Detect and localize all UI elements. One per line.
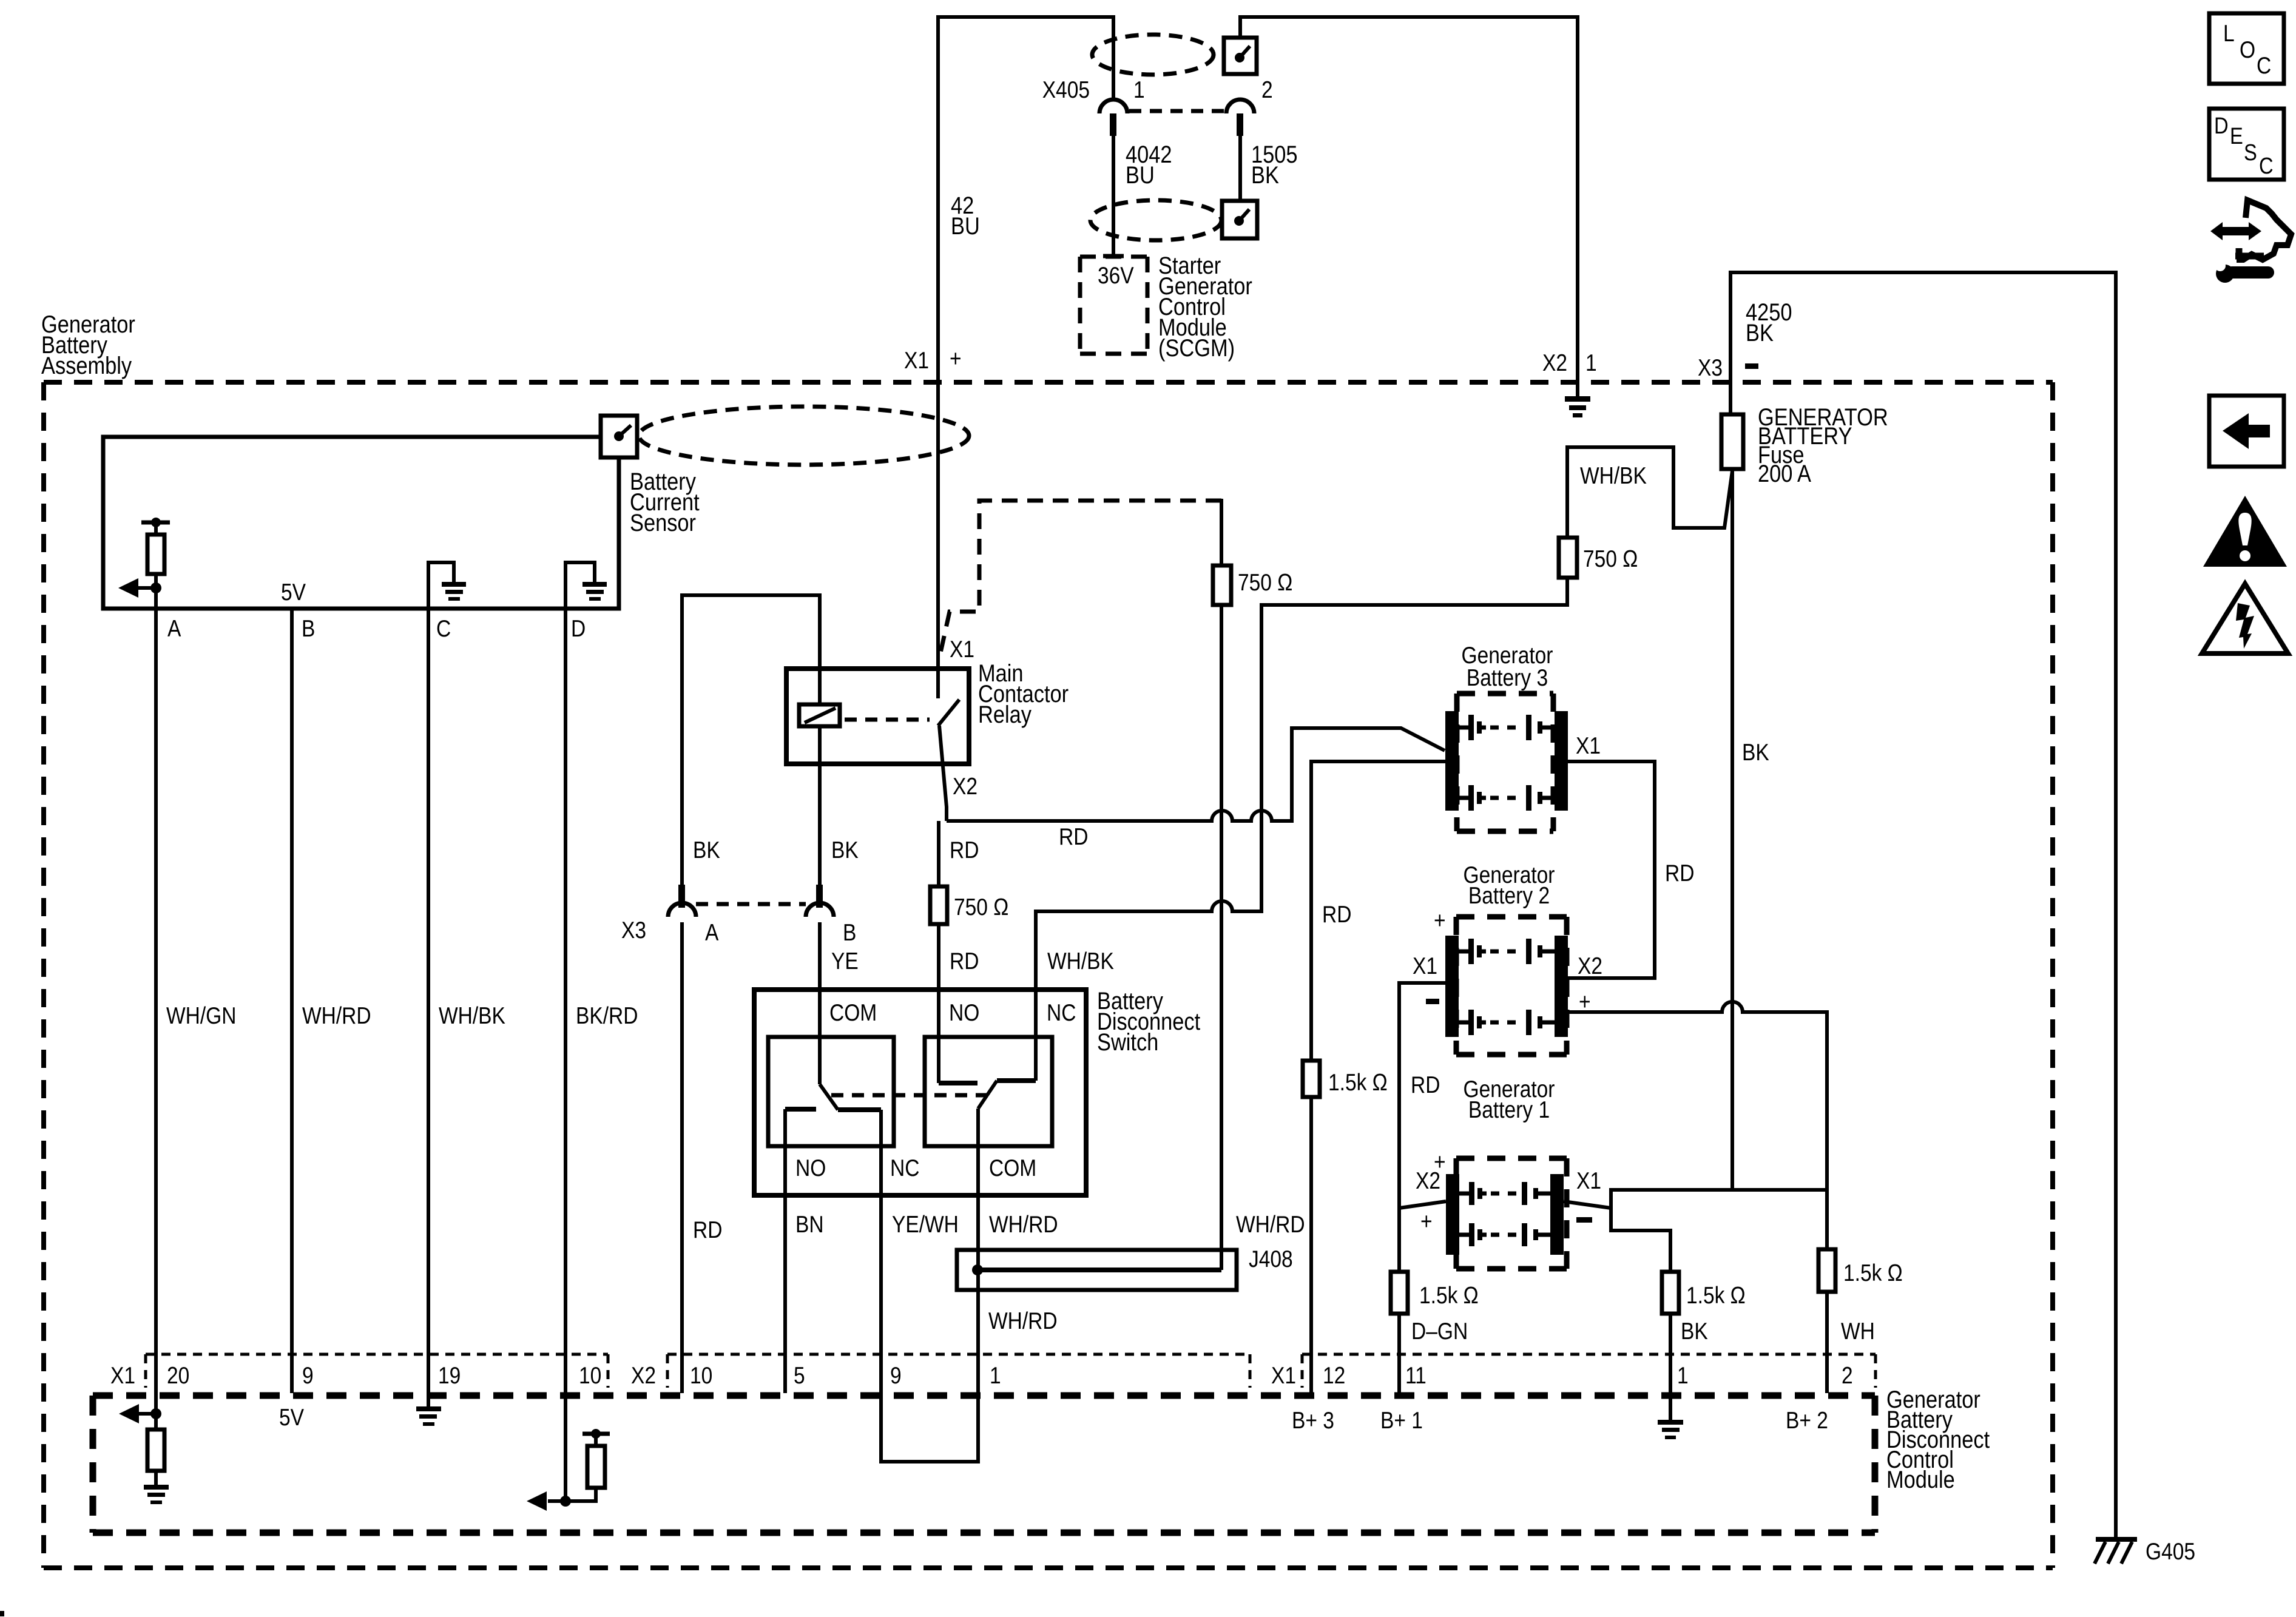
svg-text:1.5k Ω: 1.5k Ω	[1843, 1260, 1903, 1286]
switch left blade COM to NC	[820, 1084, 838, 1110]
wire to pin 12	[1309, 1097, 1313, 1393]
twisted-leads ellipse upper	[1092, 35, 1214, 75]
svg-text:B: B	[843, 919, 856, 946]
svg-text:20: 20	[167, 1362, 189, 1389]
svg-text:BK: BK	[831, 837, 859, 863]
wire battery 2 plus to right side	[1568, 1002, 1827, 1249]
battery Generator Battery 2	[1456, 914, 1567, 920]
icon back arrow box	[2209, 396, 2284, 467]
svg-text:1.5k Ω: 1.5k Ω	[1419, 1282, 1479, 1309]
svg-text:COM: COM	[829, 999, 877, 1026]
J408 bus bar	[976, 1268, 1221, 1272]
resistor 750 ohm (fuse branch)	[1559, 538, 1577, 578]
svg-text:5V: 5V	[279, 1404, 305, 1431]
svg-text:2: 2	[1261, 76, 1273, 103]
svg-text:Assembly: Assembly	[41, 352, 132, 379]
svg-text:BK: BK	[693, 837, 720, 863]
icon tool wrench	[2232, 266, 2268, 279]
wire 4042 BU	[1112, 136, 1115, 254]
svg-text:J408: J408	[1249, 1246, 1293, 1272]
sensor arrow left	[137, 586, 156, 590]
switch right NC contact bar	[997, 1078, 1036, 1083]
svg-text:S: S	[2244, 140, 2257, 166]
svg-text:BK: BK	[1742, 739, 1769, 766]
svg-text:B+ 1: B+ 1	[1380, 1407, 1423, 1434]
switch right NO contact bar	[939, 1081, 977, 1085]
svg-text:WH/BK: WH/BK	[1580, 462, 1647, 489]
svg-text:750 Ω: 750 Ω	[954, 894, 1008, 920]
connector X3 dashed link	[696, 902, 806, 906]
svg-text:WH/GN: WH/GN	[166, 1002, 236, 1029]
wire SCGM top right to X2 ground	[1240, 17, 1578, 396]
svg-text:WH/BK: WH/BK	[439, 1002, 505, 1029]
svg-text:B: B	[302, 615, 315, 642]
wire diagonal battery1 X2	[1399, 1201, 1446, 1208]
svg-text:RD: RD	[1059, 823, 1088, 850]
svg-text:X1: X1	[1413, 953, 1437, 979]
ground below X2 pin 1	[1565, 396, 1590, 402]
svg-text:RD: RD	[950, 837, 979, 863]
svg-text:12: 12	[1323, 1362, 1345, 1389]
svg-text:C: C	[436, 615, 451, 642]
switch Battery Disconnect Switch box	[754, 990, 1086, 1195]
wire RD down to switch NO	[937, 821, 940, 886]
svg-text:NC: NC	[1047, 999, 1076, 1026]
wire B2 X1 chain to pin 11	[1397, 1208, 1401, 1272]
wire right NC from WH/BK	[1034, 990, 1038, 1081]
svg-text:X1: X1	[1576, 1167, 1601, 1194]
battery current sensor square	[601, 416, 637, 457]
connector X3 pin B terminal	[816, 885, 823, 908]
svg-text:9: 9	[302, 1362, 314, 1389]
svg-text:+: +	[1434, 907, 1446, 934]
svg-text:X405: X405	[1042, 76, 1090, 103]
switch inner cell left	[768, 1037, 894, 1146]
resistor (A internal)	[154, 1414, 158, 1430]
wire U-link pins 9 to 1	[881, 1393, 978, 1462]
wire WH/RD from right COM through J408	[976, 1109, 980, 1393]
wire B WH/RD	[290, 609, 294, 1393]
svg-text:WH/BK: WH/BK	[1047, 948, 1114, 974]
module internals: A junction dot	[150, 1408, 161, 1419]
resistor 1.5k (B+1)	[1391, 1272, 1408, 1314]
wire RD relay X2 to battery 3	[947, 728, 1445, 821]
Generator Battery Assembly dashed box	[44, 380, 2053, 385]
svg-text:X1: X1	[110, 1362, 135, 1389]
svg-text:BK: BK	[1681, 1318, 1708, 1345]
svg-text:RD: RD	[950, 948, 979, 974]
svg-text:5: 5	[794, 1362, 805, 1389]
svg-text:A: A	[705, 919, 719, 946]
svg-text:19: 19	[438, 1362, 461, 1389]
svg-text:RD: RD	[1322, 901, 1351, 928]
wire 42 BU from SCGM X1 to relay	[938, 17, 1113, 698]
ground (C pin 19)	[427, 1393, 430, 1406]
svg-text:Module: Module	[1886, 1466, 1955, 1493]
ground G405	[2096, 1537, 2137, 1542]
wire 1505 BK	[1238, 136, 1242, 201]
svg-text:1: 1	[1133, 76, 1145, 103]
switch mechanical dashed link	[831, 1093, 989, 1098]
svg-text:NO: NO	[949, 999, 979, 1026]
connector X3 pin A arc	[668, 903, 696, 917]
resistor 750 ohm (switch NO)	[930, 886, 947, 924]
resistor 1.5k (BK)	[1662, 1272, 1679, 1314]
wire BK from fuse down	[1730, 469, 1734, 1190]
svg-text:1.5k Ω: 1.5k Ω	[1328, 1069, 1388, 1096]
svg-text:1: 1	[1677, 1362, 1689, 1389]
svg-text:1: 1	[990, 1362, 1001, 1389]
wire coil to X3 B	[818, 726, 822, 885]
wire battery 2 X1 to battery 1 X2 (RD)	[1399, 983, 1445, 1208]
wire YE (B) to switch COM	[818, 922, 822, 1084]
svg-text:1.5k Ω: 1.5k Ω	[1686, 1282, 1746, 1309]
svg-text:10: 10	[690, 1362, 712, 1389]
svg-text:+: +	[950, 345, 962, 372]
svg-text:(SCGM): (SCGM)	[1158, 334, 1235, 362]
svg-text:36V: 36V	[1098, 262, 1134, 289]
splice clip square upper	[1224, 38, 1257, 74]
svg-text:NO: NO	[795, 1155, 826, 1181]
wire WH/BK continues	[1036, 578, 1567, 990]
arrow left (D)	[548, 1499, 566, 1503]
fuse GENERATOR BATTERY 200A	[1721, 414, 1743, 469]
svg-text:X3: X3	[1698, 354, 1723, 381]
wire SCGM to 750 ohm	[1220, 499, 1223, 565]
relay switch blade	[938, 700, 959, 726]
svg-text:Battery 3: Battery 3	[1467, 664, 1548, 691]
svg-text:D–GN: D–GN	[1411, 1318, 1468, 1345]
relay coil	[799, 704, 840, 726]
connector X405 pin 2 terminal	[1237, 113, 1243, 136]
module internals: D junction dot	[560, 1496, 571, 1507]
wire relay X2 down	[939, 726, 947, 821]
svg-text:RD: RD	[1665, 860, 1694, 886]
wire to pin 1 and ground	[1669, 1314, 1672, 1420]
terminal T-bar 36V	[1103, 254, 1124, 258]
svg-text:D: D	[571, 615, 586, 642]
svg-text:D: D	[2214, 113, 2229, 139]
svg-text:YE: YE	[831, 948, 859, 974]
label minus (battery 2 left)	[1426, 999, 1439, 1004]
connector X3 pin A terminal	[678, 885, 685, 908]
wire BN from left NO	[783, 1109, 787, 1393]
wire D BK/RD	[564, 609, 567, 1501]
resistor 750 ohm (relay NO branch)	[1213, 565, 1231, 605]
svg-text:X3: X3	[621, 917, 646, 944]
svg-text:WH/RD: WH/RD	[302, 1002, 371, 1029]
svg-text:WH: WH	[1841, 1318, 1875, 1345]
svg-text:750 Ω: 750 Ω	[1583, 545, 1638, 572]
ground below pin 1	[1658, 1420, 1683, 1425]
wire RD into switch	[937, 924, 940, 1083]
svg-text:BK: BK	[1251, 161, 1279, 189]
page mark dot	[0, 1611, 4, 1616]
svg-text:1: 1	[1585, 349, 1597, 376]
svg-text:X2: X2	[1578, 953, 1602, 979]
wire battery 3 X1 to battery 2 X2 (RD)	[1568, 761, 1655, 978]
switch left NO contact bar	[785, 1107, 816, 1112]
svg-text:BU: BU	[951, 212, 980, 240]
wire relay coil loop	[682, 595, 820, 885]
icon tool outline	[2237, 200, 2291, 260]
connector row dotted line X1 right	[1302, 1354, 1876, 1388]
sensor clamp ellipse	[639, 407, 969, 465]
wire A WH/GN	[154, 588, 158, 1414]
splice clip square lower	[1222, 201, 1257, 238]
svg-text:11: 11	[1405, 1362, 1427, 1389]
svg-text:200 A: 200 A	[1758, 460, 1811, 487]
svg-text:BK/RD: BK/RD	[576, 1002, 638, 1029]
wire to pin 11	[1397, 1314, 1401, 1393]
wire C WH/BK	[427, 609, 430, 1393]
resistor 1.5k (B+3)	[1303, 1061, 1320, 1097]
svg-text:E: E	[2230, 123, 2243, 149]
svg-text:RD: RD	[1411, 1072, 1440, 1098]
icon lightning triangle	[2202, 584, 2288, 653]
svg-text:L: L	[2223, 20, 2235, 47]
svg-text:WH/RD: WH/RD	[988, 1308, 1058, 1334]
svg-text:5V: 5V	[281, 579, 306, 606]
connector row dotted line X2	[667, 1354, 1250, 1388]
svg-text:2: 2	[1842, 1362, 1853, 1389]
svg-text:C: C	[2259, 153, 2274, 179]
SCGM 36V dashed box	[1080, 255, 1147, 259]
ground C internal	[428, 562, 454, 609]
switch left NC contact bar	[838, 1107, 881, 1112]
svg-text:750 Ω: 750 Ω	[1238, 569, 1292, 596]
wire RD (A) to X2 pin 10	[680, 922, 684, 1393]
Generator Battery Disconnect Control Module dashed box	[93, 1393, 1875, 1399]
wire generator battery positive loop (top right box)	[1730, 272, 2116, 1537]
icon LOC box	[2209, 13, 2284, 84]
svg-text:C: C	[2257, 52, 2271, 79]
svg-text:YE/WH: YE/WH	[892, 1211, 959, 1238]
svg-text:Relay: Relay	[978, 701, 1032, 728]
switch inner cell right	[925, 1037, 1052, 1146]
SCGM dashed control path to relay X1	[939, 501, 1221, 658]
svg-text:O: O	[2240, 36, 2255, 63]
battery current sensor loop	[103, 437, 619, 609]
svg-text:WH/RD: WH/RD	[989, 1211, 1058, 1238]
switch right blade NC to COM	[978, 1081, 997, 1109]
wire battery 1 X1 diagonal	[1564, 1201, 1611, 1208]
svg-text:X2: X2	[1416, 1167, 1440, 1194]
wire WH/BK from fuse to NC	[1567, 447, 1732, 538]
battery Generator Battery 1	[1456, 1156, 1567, 1161]
svg-text:X1: X1	[1271, 1362, 1296, 1389]
ground (A internal)	[144, 1485, 169, 1490]
svg-text:10: 10	[579, 1362, 601, 1389]
connector row dotted line X1 left	[146, 1354, 608, 1388]
sensor internal resistor	[154, 522, 158, 535]
connector X405 pin 1 terminal	[1110, 113, 1116, 136]
ground D internal	[566, 562, 595, 609]
svg-text:COM: COM	[989, 1155, 1036, 1181]
wire from 750 ohm to J408	[1220, 605, 1223, 1270]
wire BK branch to pin 1 ground	[1611, 1190, 1827, 1272]
svg-text:BN: BN	[795, 1211, 824, 1238]
wire YE/WH from left NC	[879, 1110, 883, 1393]
svg-text:NC: NC	[890, 1155, 919, 1181]
label minus (battery 1 right)	[1576, 1217, 1592, 1223]
svg-text:X1: X1	[950, 636, 974, 663]
svg-text:9: 9	[890, 1362, 902, 1389]
connector X405 pin 2 arc	[1226, 100, 1254, 113]
icon warning triangle	[2203, 496, 2287, 567]
connector X405 dashed link	[1129, 109, 1226, 113]
svg-text:Battery 1: Battery 1	[1468, 1096, 1550, 1123]
connector X3 pin B arc	[806, 903, 834, 917]
relay Main Contactor Relay box	[786, 669, 969, 764]
svg-text:RD: RD	[693, 1217, 722, 1243]
relay coil dashed link	[845, 718, 930, 722]
svg-text:B+ 3: B+ 3	[1292, 1407, 1334, 1434]
wire WH to pin 2	[1825, 1292, 1829, 1393]
wire battery 3 left to pin 12 B+3	[1311, 761, 1445, 1061]
sensor internal resistor T-bar	[141, 521, 170, 525]
svg-text:A: A	[167, 615, 181, 642]
svg-text:+: +	[1420, 1208, 1433, 1235]
svg-text:Switch: Switch	[1097, 1028, 1158, 1056]
svg-text:X1: X1	[1576, 732, 1601, 759]
arrow left (A)	[138, 1412, 156, 1416]
svg-text:BU: BU	[1126, 161, 1155, 189]
splice pack J408	[957, 1250, 1237, 1290]
icon tool double arrow	[2210, 222, 2261, 240]
twisted-leads ellipse lower	[1090, 200, 1221, 240]
svg-text:BK: BK	[1746, 319, 1774, 346]
svg-text:X2: X2	[631, 1362, 656, 1389]
svg-text:Battery 2: Battery 2	[1468, 882, 1550, 909]
svg-text:B+ 2: B+ 2	[1786, 1407, 1828, 1434]
svg-text:G405: G405	[2146, 1538, 2195, 1565]
svg-text:Sensor: Sensor	[630, 509, 696, 536]
battery Generator Battery 3	[1457, 691, 1553, 697]
svg-text:X1: X1	[904, 347, 929, 374]
icon DESC box	[2209, 109, 2284, 180]
sensor junction dot	[150, 582, 161, 593]
svg-text:WH/RD: WH/RD	[1236, 1211, 1305, 1238]
connector X405 pin 1 arc	[1099, 100, 1127, 113]
svg-text:X2: X2	[1542, 349, 1567, 376]
svg-text:X2: X2	[953, 773, 977, 800]
junction dot J408	[972, 1264, 983, 1275]
resistor (D internal)	[582, 1432, 610, 1436]
resistor 1.5k (WH)	[1818, 1249, 1835, 1292]
